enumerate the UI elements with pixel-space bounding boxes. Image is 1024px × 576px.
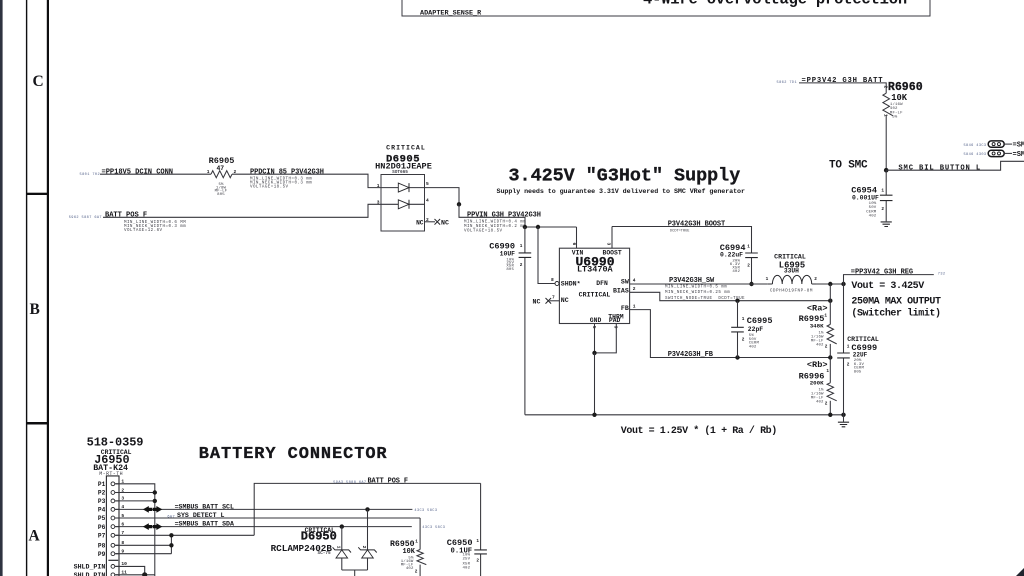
junction PPVIN / SHDN [536, 225, 540, 229]
svg-text:Vout = 3.425V: Vout = 3.425V [851, 281, 924, 292]
connector pin P8 [111, 543, 115, 547]
svg-text:FB: FB [621, 305, 629, 312]
wire P3 [116, 500, 155, 502]
svg-text:SMC_BIL_BUTTON_L: SMC_BIL_BUTTON_L [898, 164, 981, 172]
svg-text:P3: P3 [98, 498, 106, 505]
svg-text:5862 7D1: 5862 7D1 [777, 81, 797, 85]
connector pin P6 [111, 525, 115, 529]
junction FB / R6995 R6996 [828, 355, 832, 359]
resistor R6960 [883, 93, 893, 116]
svg-text:=PP3V42_G3H_BATT: =PP3V42_G3H_BATT [802, 77, 884, 85]
connector pin P5 [111, 516, 115, 520]
svg-text:Supply needs to guarantee 3.31: Supply needs to guarantee 3.31V delivere… [497, 188, 745, 196]
svg-text:BIAS: BIAS [613, 287, 629, 294]
page corner mark [1016, 568, 1024, 576]
junction rail / C6999 [841, 413, 845, 417]
junction diode outputs [457, 202, 461, 206]
svg-text:732: 732 [938, 273, 946, 277]
junction GND pins [592, 351, 596, 355]
svg-text:ADAPTER_SENSE_R: ADAPTER_SENSE_R [420, 10, 482, 18]
wire P1 to shield bus [116, 484, 155, 576]
svg-text:=PP3V42_G3H_REG: =PP3V42_G3H_REG [851, 269, 913, 277]
svg-text:2: 2 [881, 207, 884, 212]
svg-text:2: 2 [814, 277, 817, 282]
svg-text:BATT_POS_F: BATT_POS_F [105, 212, 147, 220]
wire SMBUS_BATT_SCL [116, 508, 413, 510]
svg-text:47: 47 [216, 165, 224, 172]
svg-text:P9: P9 [98, 551, 106, 558]
junction SW / Ra [828, 282, 832, 286]
svg-text:Vout = 1.25V * (1 + Ra / Rb): Vout = 1.25V * (1 + Ra / Rb) [621, 425, 777, 437]
connector pin P1 [111, 482, 115, 486]
svg-text:TO SMC: TO SMC [829, 159, 868, 171]
svg-text:2: 2 [633, 286, 636, 292]
resistor R6950 [419, 518, 421, 550]
svg-text:2: 2 [882, 86, 888, 89]
svg-text:2: 2 [847, 363, 850, 368]
svg-text:1: 1 [633, 303, 636, 309]
svg-text:518-0359: 518-0359 [87, 435, 144, 449]
svg-text:=SMBUS_BATT_SCL: =SMBUS_BATT_SCL [175, 503, 234, 510]
IC U6990 LT3470A [559, 248, 629, 323]
junction shield [142, 572, 147, 576]
wire D6905 pin5 to junction [425, 188, 460, 205]
junction FB / C6995 [735, 355, 739, 359]
svg-text:6A7: 6A7 [167, 516, 175, 520]
svg-text:402: 402 [869, 214, 877, 218]
capacitor C6994 [745, 253, 758, 258]
svg-text:SHLD_PIN: SHLD_PIN [74, 564, 106, 571]
net label =PP3V42_G3H_REG [844, 275, 934, 284]
connector J6950 body [106, 476, 119, 576]
svg-text:C6995: C6995 [747, 316, 773, 326]
svg-text:1: 1 [476, 539, 479, 544]
border inner vertical line [26, 0, 27, 576]
svg-text:P7: P7 [98, 533, 106, 540]
border frame vertical line [47, 0, 49, 576]
note box overvoltage protection [402, 0, 930, 16]
wire SYS_DETECT_L [116, 517, 421, 519]
svg-text:BATTERY CONNECTOR: BATTERY CONNECTOR [199, 445, 388, 464]
wire SMBUS_BATT_SDA [116, 526, 412, 528]
wire P7 P8 P9 tie [116, 535, 255, 553]
svg-text:BOOST: BOOST [603, 249, 622, 256]
svg-text:5801 702: 5801 702 [80, 173, 100, 177]
svg-text:MIN_NECK_WIDTH=0.25 mm: MIN_NECK_WIDTH=0.25 mm [665, 291, 730, 295]
svg-text:22UF: 22UF [853, 351, 868, 358]
svg-text:<Rb>: <Rb> [807, 360, 828, 370]
wire shield pins [116, 566, 155, 574]
svg-text:8: 8 [551, 277, 554, 283]
svg-text:PPVIN_G3H_P3V42G3H: PPVIN_G3H_P3V42G3H [467, 212, 541, 220]
wire BOOST to C6994 [612, 227, 752, 254]
svg-text:805: 805 [854, 370, 862, 374]
svg-text:0.001UF: 0.001UF [852, 195, 879, 202]
connector pin SHLD_PIN 10 [111, 565, 115, 569]
junction C6994 / SW [749, 282, 753, 286]
svg-text:(Switcher limit): (Switcher limit) [851, 308, 940, 320]
capacitor C6999 [843, 284, 845, 415]
svg-text:10K: 10K [403, 548, 416, 556]
svg-text:10UF: 10UF [500, 250, 516, 257]
svg-text:43C3 58C3: 43C3 58C3 [414, 509, 437, 513]
wire BATT_POS_F to C6950 [254, 483, 480, 535]
connector pin P9 [111, 552, 115, 556]
svg-text:348K: 348K [810, 323, 824, 330]
svg-text:1: 1 [377, 183, 380, 189]
svg-text:DFN: DFN [596, 280, 608, 287]
svg-text:43C3 58C3: 43C3 58C3 [422, 526, 445, 530]
svg-text:1: 1 [415, 540, 418, 545]
svg-text:SHLD_PIN: SHLD_PIN [74, 572, 106, 576]
svg-text:402: 402 [463, 566, 471, 570]
diode D6950 element 1 [341, 527, 343, 550]
svg-text:NC: NC [416, 219, 424, 226]
svg-text:402: 402 [890, 107, 898, 111]
resistor R6905 [211, 171, 232, 178]
junction SDA / D6950 [340, 524, 344, 528]
border tick B/A [26, 422, 48, 425]
svg-text:D6950: D6950 [301, 530, 337, 544]
svg-text:1: 1 [207, 169, 210, 175]
svg-text:4: 4 [633, 277, 636, 283]
svg-text:1: 1 [766, 277, 769, 282]
svg-text:4-Wire overvoltage protection: 4-Wire overvoltage protection [643, 0, 907, 9]
junction SW / C6999 [841, 282, 845, 286]
svg-text:SHDN*: SHDN* [561, 280, 581, 287]
svg-text:VOLTAGE=12.6V: VOLTAGE=12.6V [124, 229, 163, 233]
svg-text:2: 2 [742, 338, 745, 343]
svg-text:P2: P2 [98, 490, 106, 497]
svg-text:1: 1 [824, 313, 827, 318]
svg-text:402: 402 [406, 567, 414, 571]
wire BATT_POS_F to D6905 pin3 [103, 204, 381, 217]
svg-text:1: 1 [882, 114, 888, 117]
svg-text:805: 805 [217, 193, 225, 197]
svg-text:P6: P6 [98, 524, 106, 531]
svg-text:B: B [30, 301, 40, 318]
svg-text:7: 7 [552, 295, 555, 301]
wire SW to Ra [829, 284, 831, 301]
capacitor C6950 [480, 483, 482, 576]
svg-text:33UH: 33UH [784, 267, 799, 274]
svg-text:<Ra>: <Ra> [807, 304, 828, 314]
svg-text:9: 9 [613, 326, 619, 329]
wire D6950 common anode [342, 570, 368, 576]
border tick C/B [26, 193, 48, 195]
svg-text:=SMBUS_BATT_SDA: =SMBUS_BATT_SDA [175, 521, 234, 528]
svg-text:10K: 10K [891, 93, 908, 103]
svg-text:4: 4 [426, 198, 429, 204]
bidirectional arrows SCL [143, 506, 152, 513]
svg-text:402: 402 [749, 345, 757, 349]
svg-text:402: 402 [816, 343, 824, 347]
junction P7 [169, 533, 173, 537]
wire PPDCIN to D6905 pin1 [232, 174, 381, 187]
svg-text:=SMC: =SMC [1013, 151, 1024, 159]
svg-text:P1: P1 [98, 481, 106, 488]
svg-text:NC: NC [561, 297, 569, 304]
connector pin P2 [111, 491, 115, 495]
svg-text:SW: SW [621, 279, 629, 286]
svg-text:5846 4303: 5846 4303 [963, 153, 986, 157]
wire SMC_BIL_BUTTON_L [886, 161, 1024, 170]
connector pin P3 [111, 499, 115, 503]
junction P8 [169, 543, 173, 547]
svg-text:CRITICAL: CRITICAL [579, 292, 611, 299]
svg-text:MIN_LINE_WIDTH=0.5 mm: MIN_LINE_WIDTH=0.5 mm [665, 286, 727, 290]
svg-text:5: 5 [591, 326, 597, 329]
svg-text:GND: GND [590, 317, 602, 324]
connector pin SHLD_PIN 11 [111, 573, 115, 576]
svg-text:1: 1 [881, 188, 884, 193]
svg-text:PAD: PAD [609, 317, 621, 324]
junction rail / R6996 [828, 413, 832, 417]
capacitor C6954 [885, 170, 887, 221]
svg-text:P8: P8 [98, 543, 106, 550]
svg-text:VOLTAGE=18.5V: VOLTAGE=18.5V [464, 230, 503, 234]
resistor R6996 Rb [829, 358, 831, 383]
svg-text:1: 1 [747, 244, 750, 249]
ground symbol [843, 415, 845, 422]
svg-text:2: 2 [415, 570, 418, 575]
junction SCL / D6950 [365, 507, 369, 511]
svg-text:59A3 5888 6A7: 59A3 5888 6A7 [333, 481, 366, 485]
svg-text:VOLTAGE=18.5V: VOLTAGE=18.5V [250, 186, 289, 190]
svg-text:BATT_POS_F: BATT_POS_F [368, 477, 408, 485]
wire PP18V5_DCIN_CONN [100, 173, 211, 175]
connector pin P4 [111, 508, 115, 512]
wire U6990 GND pins [595, 324, 617, 353]
svg-text:MIN_LINE_WIDTH=0.4 mm: MIN_LINE_WIDTH=0.4 mm [464, 220, 526, 224]
wire FB [630, 310, 831, 358]
svg-text:VIN: VIN [572, 249, 584, 256]
svg-text:2: 2 [476, 559, 479, 564]
border margin strip [0, 0, 3, 576]
svg-text:MIN_NECK_WIDTH=0.2 mm: MIN_NECK_WIDTH=0.2 mm [464, 225, 526, 229]
svg-text:2: 2 [825, 402, 828, 407]
junction PPVIN / C6990 [523, 225, 527, 229]
resistor R6995 Ra [829, 301, 831, 325]
wire P2 [116, 492, 155, 494]
svg-text:1: 1 [847, 344, 850, 349]
svg-text:C: C [33, 73, 44, 90]
svg-text:NC: NC [533, 298, 541, 305]
svg-text:3: 3 [377, 200, 380, 206]
svg-text:2: 2 [361, 546, 367, 549]
svg-text:CRITICAL: CRITICAL [774, 253, 806, 260]
svg-text:250MA MAX OUTPUT: 250MA MAX OUTPUT [851, 296, 941, 307]
svg-text:402: 402 [732, 270, 740, 274]
svg-text:25V: 25V [463, 557, 471, 561]
svg-text:805: 805 [506, 268, 514, 272]
svg-text:=SMC: =SMC [1013, 142, 1024, 150]
diode D6950 element 2 [367, 509, 369, 550]
svg-text:A: A [29, 528, 41, 545]
svg-text:NC: NC [441, 220, 449, 227]
svg-text:=PP18V5_DCIN_CONN: =PP18V5_DCIN_CONN [102, 169, 174, 177]
inductor L6995 [767, 283, 772, 285]
svg-text:LT3470A: LT3470A [577, 265, 614, 275]
junction SMC_BIL_BUTTON [884, 168, 889, 173]
wire PPVIN_G3H_P3V42G3H [459, 204, 577, 227]
svg-text:1: 1 [520, 244, 523, 249]
svg-text:1: 1 [826, 369, 829, 374]
junction BIAS / R6995 [828, 299, 832, 303]
svg-text:0.22uF: 0.22uF [720, 252, 743, 259]
svg-text:5%: 5% [892, 115, 898, 119]
svg-text:SC-75: SC-75 [318, 551, 332, 556]
diode D6905 element A pins 1-5 [381, 187, 425, 189]
svg-text:402: 402 [816, 401, 824, 405]
junction rail / GND [592, 413, 596, 417]
svg-text:5: 5 [426, 181, 429, 187]
svg-text:PPDCIN_85_P3V42G3H: PPDCIN_85_P3V42G3H [250, 169, 324, 177]
ground symbol C6954 [881, 222, 892, 227]
junction BIAS / C6995 [735, 299, 739, 303]
shield separator mark [108, 559, 118, 561]
wire SW rail [630, 283, 844, 285]
bidirectional arrows SDA [143, 523, 152, 530]
svg-text:DCDT=TRUE: DCDT=TRUE [670, 229, 689, 233]
wire BIAS [630, 292, 831, 300]
capacitor C6990 [524, 227, 526, 415]
wire SHDN [538, 227, 555, 284]
svg-text:P3V42G3H_BOOST: P3V42G3H_BOOST [668, 221, 725, 229]
svg-text:P5: P5 [98, 515, 106, 522]
wire PP3V42_G3H_BATT [799, 83, 886, 93]
diode D6905 body [381, 175, 425, 232]
svg-text:3: 3 [605, 243, 611, 246]
diode D6905 element B pins 3-4 [381, 203, 425, 205]
svg-text:1: 1 [742, 317, 745, 322]
svg-text:2: 2 [520, 263, 523, 268]
svg-text:22pF: 22pF [748, 326, 764, 333]
svg-text:CDPH4D19FNP-8M: CDPH4D19FNP-8M [770, 288, 813, 293]
svg-text:P4: P4 [98, 507, 106, 514]
connector pin P7 [111, 533, 115, 537]
wire ground rail [525, 353, 844, 415]
capacitor C6995 [737, 301, 739, 358]
svg-text:CRITICAL: CRITICAL [386, 144, 426, 151]
svg-text:5962 5887 6A7: 5962 5887 6A7 [69, 216, 102, 220]
svg-text:SYS_DETECT_L: SYS_DETECT_L [177, 512, 225, 519]
svg-text:2: 2 [747, 264, 750, 269]
svg-text:2: 2 [825, 345, 828, 350]
svg-text:5846 43C3: 5846 43C3 [963, 144, 986, 148]
svg-text:1: 1 [336, 546, 342, 549]
svg-text:200K: 200K [810, 379, 824, 386]
svg-text:3.425V "G3Hot" Supply: 3.425V "G3Hot" Supply [509, 166, 741, 187]
